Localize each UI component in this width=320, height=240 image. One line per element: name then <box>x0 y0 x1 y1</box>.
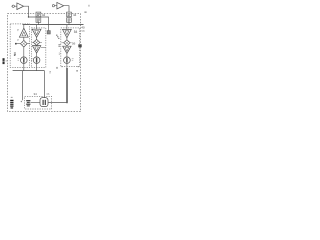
tick near rail corner <box>49 72 51 73</box>
channel box 1 (dashed) <box>10 24 29 68</box>
buffer U2 <box>57 2 64 9</box>
terminal dot on box3 bottom left <box>61 66 62 67</box>
edge glyph near box3 left upper <box>58 45 60 46</box>
source I2 (circle) <box>33 57 40 64</box>
stubs X3 <box>61 42 71 44</box>
svg-text:42: 42 <box>42 13 46 17</box>
label plus <box>21 101 22 102</box>
ref numeral left edge 24 <box>14 53 16 56</box>
ellipsis text <box>56 35 57 36</box>
source I1 (circle) <box>21 57 28 64</box>
edge glyph near box3 left lower <box>59 53 61 54</box>
wire A4 to mixer X3 <box>66 38 68 40</box>
supply box (dashed) <box>25 96 52 109</box>
label i2 <box>31 59 33 60</box>
source I3 (circle) <box>64 57 71 64</box>
label a1 <box>17 30 19 31</box>
wire I2 down <box>36 64 38 71</box>
buffer U2 input circle <box>52 5 54 7</box>
collector rail <box>13 70 45 72</box>
border tag top right <box>84 11 86 13</box>
svg-text:44: 44 <box>73 13 77 17</box>
wire A1 to mixer X1 <box>23 37 25 40</box>
speck top right <box>88 5 89 7</box>
wire U1 output L-drop <box>24 6 36 17</box>
junction dot <box>28 16 29 17</box>
wire bus to amp A1 <box>23 25 25 29</box>
wire bus to amp A2 <box>36 25 38 30</box>
tap terminal box <box>47 31 50 34</box>
supply bus <box>23 24 84 26</box>
wire drop mid <box>43 71 45 98</box>
svg-text:34: 34 <box>34 92 38 96</box>
wire U2 output <box>64 6 69 12</box>
amp A3 (down triangle) <box>32 46 40 54</box>
figure label block (rotated text) <box>10 100 13 101</box>
terminal dot on box3 bottom right <box>78 66 79 67</box>
svg-text:54: 54 <box>74 30 78 34</box>
buffer U2 input wire <box>55 5 57 7</box>
wire bus to amp A4 <box>66 25 68 30</box>
wire X1 to source I1 <box>23 47 25 57</box>
svg-text:58: 58 <box>81 29 85 33</box>
wire left input to X1 <box>16 43 30 45</box>
wire oscillator output <box>48 102 67 104</box>
wire A2 to mixer X2 <box>36 37 38 39</box>
svg-text:56: 56 <box>72 41 76 45</box>
buffer U1 <box>17 3 24 10</box>
label i3 <box>72 59 74 60</box>
terminal tick right <box>76 70 78 72</box>
heavy output line <box>66 68 68 103</box>
tick above label <box>11 96 13 99</box>
stubs X2 <box>32 41 42 43</box>
svg-text:36: 36 <box>46 92 50 96</box>
wire A3 to source I2 <box>36 53 38 57</box>
mixer X2 (diamond) <box>33 39 39 45</box>
mixer X3 (diamond) <box>64 40 70 46</box>
mixer X1 (diamond) <box>21 40 28 47</box>
terminal dot left of box3 <box>56 67 57 68</box>
channel box 2 (dashed) <box>31 28 45 68</box>
amp A5 (down triangle) <box>63 46 71 53</box>
amp A1 (up triangle) <box>19 28 28 37</box>
amp A2 (down triangle) <box>32 29 41 37</box>
component stack Z1 lower box <box>36 18 41 23</box>
battery B1 <box>26 100 30 101</box>
label above X1 wire <box>17 39 19 40</box>
wire drop left <box>22 71 24 101</box>
buffer U1 input circle <box>12 5 14 7</box>
tap wire to node 46 <box>41 17 49 31</box>
channel box 3 (dashed) <box>61 28 80 67</box>
wire I1 down <box>23 64 25 71</box>
wire A5 to source I3 <box>66 54 68 57</box>
component stack Z2 upper box <box>67 12 72 17</box>
stub A3 right <box>41 47 46 49</box>
node tag on right border <box>78 44 81 47</box>
oscillator Y1 <box>40 98 48 107</box>
component stack Z1 upper box <box>36 12 41 17</box>
label i1 <box>18 59 20 60</box>
buffer U1 input wire <box>11 5 17 7</box>
component stack Z2 lower box <box>67 18 72 23</box>
input terminal square <box>15 43 17 45</box>
wire battery to oscillator <box>30 102 40 104</box>
amp A4 (down triangle) <box>63 29 72 37</box>
ref numeral 20 far left <box>3 58 5 61</box>
wire Z1 to bus <box>37 22 39 24</box>
outer dashed enclosure <box>8 14 81 112</box>
wire Z2 to bus <box>68 22 70 24</box>
wire I3 down <box>66 64 68 69</box>
